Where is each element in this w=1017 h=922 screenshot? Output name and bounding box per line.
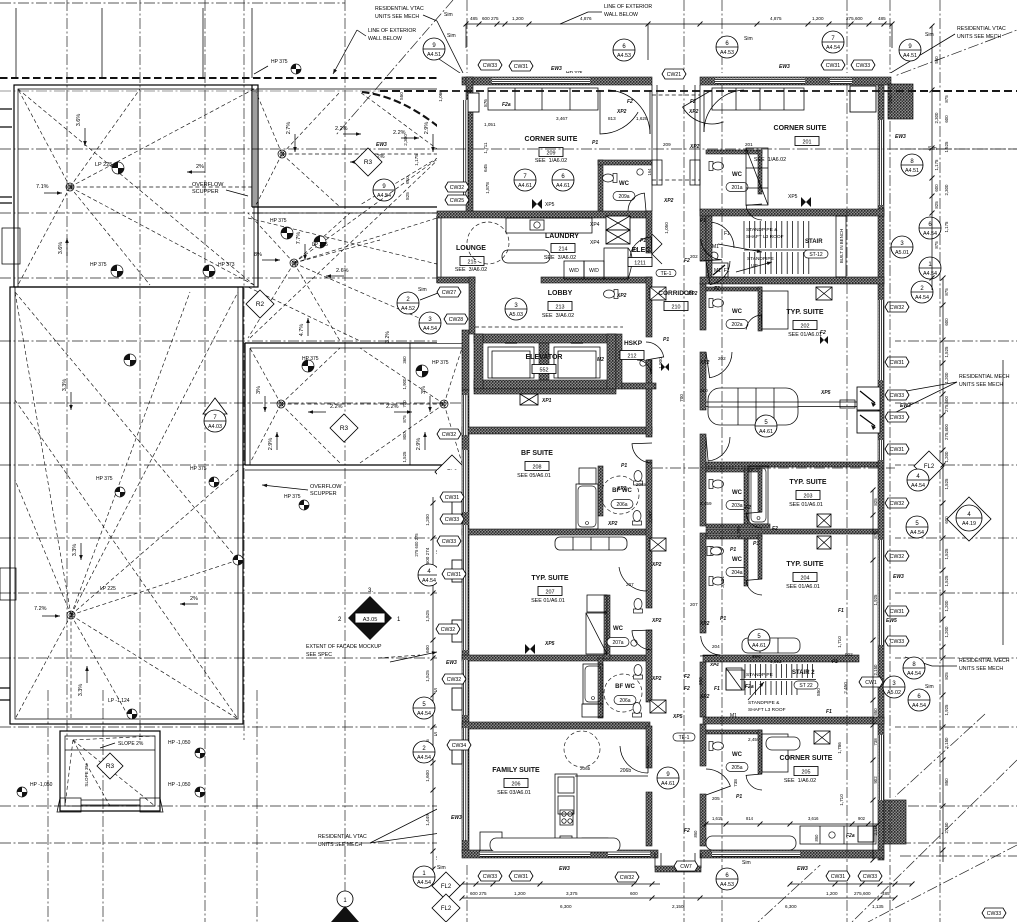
svg-text:814: 814 xyxy=(746,816,754,821)
toilet xyxy=(709,162,724,171)
svg-text:UNITS SEE MECH: UNITS SEE MECH xyxy=(959,666,1003,672)
roof C dim strip xyxy=(409,343,411,465)
svg-text:LINE OF EXTERIOR: LINE OF EXTERIOR xyxy=(604,4,652,10)
svg-text:850: 850 xyxy=(873,708,878,716)
svg-text:1,200: 1,200 xyxy=(944,600,949,612)
callout 4/A4.54 xyxy=(907,469,929,491)
band above BF suite xyxy=(462,427,652,434)
callout 2/A4.54 xyxy=(413,741,435,763)
band below corner suite 209 xyxy=(437,211,651,218)
line of exterior wall below arc xyxy=(362,92,440,128)
svg-text:XP5: XP5 xyxy=(820,390,831,396)
door swing xyxy=(700,239,722,261)
room tag 203a xyxy=(726,501,748,510)
svg-text:CW32: CW32 xyxy=(890,305,905,311)
svg-text:700: 700 xyxy=(402,400,407,408)
wall notch lower left xyxy=(0,568,16,600)
roof C diagonals xyxy=(250,348,281,404)
door swing xyxy=(700,636,720,656)
svg-text:F2: F2 xyxy=(772,526,778,532)
svg-text:CW31: CW31 xyxy=(445,495,460,501)
roof B outline (upper middle) xyxy=(251,85,253,207)
room number 201 xyxy=(795,137,819,146)
long diagonal top-left xyxy=(336,0,453,135)
svg-text:3,467: 3,467 xyxy=(556,116,568,121)
svg-text:902: 902 xyxy=(858,816,866,821)
arrow xyxy=(401,137,419,139)
east wall window bays xyxy=(857,387,880,410)
svg-text:2,300: 2,300 xyxy=(403,134,408,146)
sheet circle 1 bottom xyxy=(337,891,353,907)
room number 210 xyxy=(664,302,688,311)
roof extension lines top xyxy=(15,8,17,78)
svg-text:SEE 1/A6.02: SEE 1/A6.02 xyxy=(535,158,567,164)
tag CW27 xyxy=(437,287,461,297)
svg-text:3.6%: 3.6% xyxy=(76,114,82,127)
svg-text:850: 850 xyxy=(816,688,821,696)
roof A outline xyxy=(14,85,258,287)
callout 2/A4.54 xyxy=(911,281,933,303)
svg-text:F2: F2 xyxy=(690,99,696,105)
svg-text:209: 209 xyxy=(547,150,556,156)
svg-text:A4.54: A4.54 xyxy=(907,671,921,677)
arrow xyxy=(304,244,306,260)
svg-text:LINE OF EXTERIOR: LINE OF EXTERIOR xyxy=(368,28,416,34)
tag CW32 xyxy=(445,182,469,192)
arrow xyxy=(343,133,361,135)
grid horizontals xyxy=(0,2,345,4)
west wall glazing left wing xyxy=(463,100,469,205)
door swing xyxy=(746,204,762,220)
toilet xyxy=(633,703,642,718)
built-in seat xyxy=(706,836,796,850)
svg-text:STANDPIPE &: STANDPIPE & xyxy=(748,700,780,706)
svg-text:205a: 205a xyxy=(731,765,742,771)
svg-text:1,135: 1,135 xyxy=(872,904,884,909)
svg-text:SEE 01/A6.01: SEE 01/A6.01 xyxy=(786,584,820,590)
svg-text:TYP. SUITE: TYP. SUITE xyxy=(531,575,569,582)
roof A diagonals xyxy=(18,89,70,187)
room number 205 xyxy=(794,767,818,776)
damper symbol xyxy=(820,336,828,344)
elevator shaft walls xyxy=(474,334,616,343)
arrow xyxy=(86,666,88,683)
tag CW32 xyxy=(885,302,909,312)
svg-text:XP2: XP2 xyxy=(607,521,618,527)
hskp door xyxy=(637,360,651,374)
svg-text:1,786: 1,786 xyxy=(837,742,842,754)
suite 207 entry door xyxy=(619,567,647,591)
svg-text:CORNER SUITE: CORNER SUITE xyxy=(780,755,833,762)
svg-text:201a: 201a xyxy=(731,185,742,191)
door swing xyxy=(706,769,730,795)
svg-text:7.1%: 7.1% xyxy=(36,184,49,190)
top wall glazing xyxy=(492,79,590,84)
band below corner suite 201 xyxy=(700,209,884,216)
callout 5/A4.54 xyxy=(906,516,928,538)
svg-text:A5.02: A5.02 xyxy=(887,690,901,696)
svg-text:875: 875 xyxy=(944,288,949,296)
svg-text:XP2: XP2 xyxy=(651,618,662,624)
arrow xyxy=(42,615,60,617)
svg-text:A4.54: A4.54 xyxy=(915,295,929,301)
svg-text:FL2: FL2 xyxy=(441,906,452,912)
svg-text:FL2: FL2 xyxy=(441,884,452,890)
svg-text:600 275: 600 275 xyxy=(470,891,487,896)
toilet xyxy=(634,599,643,614)
svg-text:HP 375: HP 375 xyxy=(90,262,107,268)
svg-text:1,200: 1,200 xyxy=(512,16,524,21)
svg-text:850: 850 xyxy=(698,677,703,685)
room tag 205a xyxy=(726,763,748,772)
svg-text:SEE 01/A6.01: SEE 01/A6.01 xyxy=(788,332,822,338)
toilet xyxy=(604,290,619,299)
svg-text:F1: F1 xyxy=(724,231,730,237)
svg-text:STANDPIPE &: STANDPIPE & xyxy=(746,227,778,233)
svg-text:485: 485 xyxy=(470,16,478,21)
shaft box xyxy=(814,731,830,744)
link walls xyxy=(651,85,653,211)
svg-text:825: 825 xyxy=(873,498,878,506)
svg-text:825: 825 xyxy=(405,192,410,200)
svg-text:F1: F1 xyxy=(700,218,706,224)
svg-text:1,710: 1,710 xyxy=(837,636,842,648)
svg-text:202a: 202a xyxy=(731,322,742,328)
svg-text:A4.51: A4.51 xyxy=(427,52,441,58)
svg-text:206a: 206a xyxy=(616,502,627,508)
svg-text:R3: R3 xyxy=(340,425,349,432)
svg-text:A4.54: A4.54 xyxy=(422,578,436,584)
svg-text:3.3%: 3.3% xyxy=(72,544,78,557)
family suite kitchen xyxy=(555,774,577,852)
svg-text:207: 207 xyxy=(546,589,555,595)
svg-text:BF SUITE: BF SUITE xyxy=(521,450,553,457)
shaft box xyxy=(520,394,538,405)
svg-text:XP5: XP5 xyxy=(545,202,555,208)
svg-text:R3: R3 xyxy=(106,763,115,770)
room tag 209a xyxy=(613,192,635,201)
svg-text:FAMILY SUITE: FAMILY SUITE xyxy=(492,767,540,774)
tag CW33 xyxy=(982,908,1006,918)
svg-text:M2: M2 xyxy=(597,357,604,363)
top dimension line xyxy=(466,23,892,25)
dark balcony block top right xyxy=(888,84,913,119)
callout 6/A4.54 xyxy=(919,217,941,239)
svg-text:LP 225: LP 225 xyxy=(100,586,116,592)
band below typ suite 207 xyxy=(462,655,650,661)
svg-text:HP 375: HP 375 xyxy=(302,356,319,362)
svg-text:STANDPIPE: STANDPIPE xyxy=(746,672,773,678)
svg-text:XP2: XP2 xyxy=(687,291,698,297)
arrow xyxy=(432,134,434,152)
svg-text:204a: 204a xyxy=(731,570,742,576)
svg-text:M1: M1 xyxy=(730,713,737,719)
svg-text:CW25: CW25 xyxy=(450,198,465,204)
callout 1/A4.54 xyxy=(413,866,435,888)
svg-text:A3.05: A3.05 xyxy=(363,617,378,623)
svg-text:EXTENT OF FACADE MOCKUP: EXTENT OF FACADE MOCKUP xyxy=(306,644,382,650)
tag CW33 xyxy=(851,60,875,70)
toilet xyxy=(634,471,643,486)
callout 4/A4.19 xyxy=(956,505,982,531)
svg-text:Sim: Sim xyxy=(418,287,427,293)
svg-text:1,925: 1,925 xyxy=(873,594,878,606)
svg-text:600 274: 600 274 xyxy=(425,547,430,564)
svg-text:SEE 3/A6.02: SEE 3/A6.02 xyxy=(455,267,487,273)
svg-text:850: 850 xyxy=(944,778,949,786)
tag CW33 xyxy=(478,60,502,70)
room tag 201a xyxy=(726,183,748,192)
svg-text:STAIR: STAIR xyxy=(805,239,823,245)
left margin wall stubs xyxy=(0,108,12,110)
svg-text:206a: 206a xyxy=(619,698,630,704)
svg-text:A4.52: A4.52 xyxy=(401,306,415,312)
callout 6/A4.53 xyxy=(716,868,738,890)
svg-text:CW33: CW33 xyxy=(890,639,905,645)
svg-text:CW33: CW33 xyxy=(890,393,905,399)
tag CW31 xyxy=(885,357,909,367)
svg-text:HP 375: HP 375 xyxy=(271,59,288,65)
svg-text:W/D: W/D xyxy=(569,268,579,274)
door swing xyxy=(628,193,646,211)
callout 6/A4.61 xyxy=(552,169,574,191)
svg-text:ELEC: ELEC xyxy=(632,247,651,254)
room tag TE-1 xyxy=(656,270,676,277)
svg-text:202: 202 xyxy=(801,323,810,329)
svg-text:1,200: 1,200 xyxy=(944,372,949,384)
svg-text:W/D: W/D xyxy=(589,268,599,274)
svg-text:A4.03: A4.03 xyxy=(208,424,222,430)
svg-text:2%: 2% xyxy=(196,164,204,170)
svg-text:RESIDENTIAL VTAC: RESIDENTIAL VTAC xyxy=(375,6,424,12)
svg-text:F2: F2 xyxy=(745,505,751,511)
laundry counter xyxy=(506,218,592,233)
roof drain xyxy=(440,400,448,408)
svg-text:XP2: XP2 xyxy=(699,621,710,627)
wc 203a xyxy=(706,468,762,472)
svg-text:WALL BELOW: WALL BELOW xyxy=(368,36,402,42)
toilet xyxy=(709,299,724,308)
svg-text:1,525: 1,525 xyxy=(402,451,407,463)
arrow xyxy=(262,485,308,490)
svg-text:CORNER SUITE: CORNER SUITE xyxy=(774,125,827,132)
svg-text:A4.54: A4.54 xyxy=(417,711,431,717)
lounge bay west wall xyxy=(436,216,438,283)
link bottom walls xyxy=(654,853,656,868)
band 203/204 xyxy=(706,529,878,534)
svg-text:CW27: CW27 xyxy=(442,290,457,296)
right wing top wall xyxy=(700,77,891,85)
svg-text:R3: R3 xyxy=(364,159,373,166)
door swing xyxy=(600,90,638,134)
svg-text:A4.54: A4.54 xyxy=(911,483,925,489)
tag CW32 xyxy=(615,872,639,882)
svg-text:TE-1: TE-1 xyxy=(661,271,672,277)
spot elevation marker xyxy=(281,227,293,239)
svg-text:OVERFLOW: OVERFLOW xyxy=(310,484,342,490)
tag CW33 xyxy=(478,871,502,881)
svg-text:CW31: CW31 xyxy=(890,609,905,615)
svg-text:F2a: F2a xyxy=(502,102,511,108)
svg-text:3%: 3% xyxy=(421,386,427,394)
svg-text:CW33: CW33 xyxy=(483,874,498,880)
room number 552 xyxy=(532,365,556,374)
svg-text:6,092: 6,092 xyxy=(770,659,782,664)
toilet xyxy=(603,174,618,183)
svg-text:700: 700 xyxy=(679,394,684,402)
svg-text:XP4: XP4 xyxy=(751,654,761,659)
svg-text:1,525: 1,525 xyxy=(944,346,949,358)
arrow xyxy=(44,192,62,194)
diamond FL2 xyxy=(432,872,460,900)
tag CW25 xyxy=(445,195,469,205)
bathtub xyxy=(749,466,768,524)
svg-text:1,900: 1,900 xyxy=(402,378,407,390)
tag CW33 xyxy=(885,390,909,400)
door swing xyxy=(746,774,762,790)
lobby travel dashed boundary xyxy=(475,326,623,328)
svg-text:875: 875 xyxy=(402,415,407,423)
stair 1 treads xyxy=(743,221,745,248)
diamond R2 xyxy=(246,290,274,318)
tag CW31 xyxy=(885,606,909,616)
svg-text:A4.53: A4.53 xyxy=(720,50,734,56)
svg-text:SEE 05/A6.01: SEE 05/A6.01 xyxy=(517,473,551,479)
spot elevation marker xyxy=(124,354,136,366)
svg-text:Sim: Sim xyxy=(742,860,751,866)
svg-text:A4.61: A4.61 xyxy=(759,429,773,435)
roof drain xyxy=(440,150,448,158)
svg-text:A4.61: A4.61 xyxy=(752,643,766,649)
callout 7/A4.03 xyxy=(204,410,226,432)
svg-text:800: 800 xyxy=(402,432,407,440)
tag CW32 xyxy=(442,674,466,684)
svg-text:F1: F1 xyxy=(714,686,720,692)
door swing xyxy=(746,315,762,331)
svg-text:360: 360 xyxy=(402,356,407,364)
spot elevation marker xyxy=(416,365,428,377)
wc 202a xyxy=(706,287,762,291)
arrow xyxy=(748,682,764,700)
toilet xyxy=(633,511,642,526)
svg-text:1,175: 1,175 xyxy=(414,154,419,166)
door swing xyxy=(706,437,730,461)
svg-text:EW3: EW3 xyxy=(551,66,562,72)
svg-text:206b: 206b xyxy=(620,768,631,774)
svg-text:HP 375: HP 375 xyxy=(432,360,449,366)
dimension strip x=433 xyxy=(432,497,434,886)
svg-text:F2: F2 xyxy=(684,828,690,834)
svg-text:UNITS SEE MECH: UNITS SEE MECH xyxy=(959,382,1003,388)
arrow xyxy=(180,603,198,605)
toilet xyxy=(709,547,724,556)
svg-text:P1: P1 xyxy=(753,541,759,547)
svg-text:1,175: 1,175 xyxy=(944,221,949,233)
svg-text:6,300: 6,300 xyxy=(785,904,797,909)
arrow xyxy=(262,259,280,261)
svg-text:CW33: CW33 xyxy=(483,63,498,69)
svg-text:SLOPE 2%: SLOPE 2% xyxy=(118,741,144,747)
svg-text:Sim: Sim xyxy=(447,33,456,39)
sheet keynote diamond A3.05 xyxy=(348,596,392,640)
svg-text:HP 373: HP 373 xyxy=(218,262,235,268)
callout 8/A4.54 xyxy=(903,657,925,679)
sink xyxy=(631,640,637,646)
svg-text:2.6%: 2.6% xyxy=(336,268,349,274)
svg-text:P1: P1 xyxy=(720,616,726,622)
arrow xyxy=(350,161,368,163)
svg-text:SHAFT L3 ROOF: SHAFT L3 ROOF xyxy=(746,234,784,240)
arrow xyxy=(264,396,266,412)
room number 202 xyxy=(793,321,817,330)
room tag 206a xyxy=(614,696,636,705)
callout 5/A4.61 xyxy=(748,629,770,651)
svg-text:610: 610 xyxy=(405,176,410,184)
svg-text:LAUNDRY: LAUNDRY xyxy=(545,233,579,240)
svg-text:CW31: CW31 xyxy=(514,64,529,70)
svg-text:CW32: CW32 xyxy=(442,432,457,438)
svg-text:1211: 1211 xyxy=(634,260,646,266)
svg-text:A4.54: A4.54 xyxy=(417,755,431,761)
svg-text:1,200: 1,200 xyxy=(425,514,430,526)
svg-text:SCUPPER: SCUPPER xyxy=(192,189,219,195)
svg-text:SEE 3/A6.02: SEE 3/A6.02 xyxy=(544,255,576,261)
door swing xyxy=(646,342,664,360)
arrow xyxy=(718,244,762,252)
bottom dimension rows xyxy=(462,883,660,885)
svg-text:3.: 3. xyxy=(368,588,373,594)
svg-text:202: 202 xyxy=(690,254,698,259)
svg-text:BF WC: BF WC xyxy=(615,684,635,690)
family suite door xyxy=(620,746,648,773)
svg-text:825: 825 xyxy=(944,672,949,680)
corner suite 201 casework xyxy=(712,88,804,110)
svg-text:275,600: 275,600 xyxy=(944,396,949,412)
svg-text:SLOPE 3%: SLOPE 3% xyxy=(84,763,89,786)
west wall sill bumps xyxy=(452,500,462,522)
svg-text:TYP. SUITE: TYP. SUITE xyxy=(789,479,827,486)
svg-text:902: 902 xyxy=(845,652,853,657)
svg-text:2%: 2% xyxy=(190,596,198,602)
svg-text:550: 550 xyxy=(934,56,939,64)
svg-text:XP2: XP2 xyxy=(616,486,627,492)
svg-text:A4.53: A4.53 xyxy=(617,53,631,59)
svg-text:1,200: 1,200 xyxy=(944,451,949,463)
diamond R3 xyxy=(330,414,358,442)
callout 9/A4.61 xyxy=(657,767,679,789)
roof drain xyxy=(67,611,75,619)
band above family suite xyxy=(462,722,650,729)
callout 8/A4.51 xyxy=(901,154,923,176)
svg-text:SEE 1/A6.02: SEE 1/A6.02 xyxy=(754,157,786,163)
room number 203 xyxy=(796,491,820,500)
svg-text:CW32: CW32 xyxy=(620,875,635,881)
svg-text:XP5: XP5 xyxy=(788,194,798,200)
svg-text:A4.54: A4.54 xyxy=(910,530,924,536)
svg-text:EW3: EW3 xyxy=(900,403,911,409)
right wing closets next to wcs xyxy=(762,291,788,329)
tag CW31 xyxy=(442,569,466,579)
left wing west wall lower xyxy=(462,390,469,852)
window box 876 right xyxy=(850,86,876,112)
svg-text:F2: F2 xyxy=(684,674,690,680)
svg-text:2,150: 2,150 xyxy=(944,822,949,834)
svg-text:SEE 01/A6.01: SEE 01/A6.01 xyxy=(531,598,565,604)
svg-text:3%: 3% xyxy=(256,386,262,394)
svg-text:209: 209 xyxy=(663,142,671,147)
svg-text:A4.61: A4.61 xyxy=(661,781,675,787)
svg-text:902: 902 xyxy=(873,776,878,784)
